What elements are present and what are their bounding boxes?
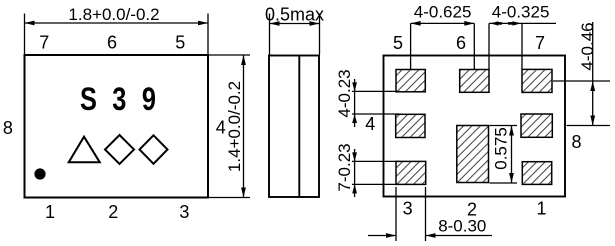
dimension 8-0.30 arrow left [386, 233, 396, 238]
svg-text:9: 9 [142, 82, 156, 118]
pad 7 [522, 69, 552, 92]
svg-text:4: 4 [365, 114, 375, 134]
dimension 4-0.23 line [354, 79, 356, 127]
dimension 4-0.625 extension lines [411, 23, 475, 69]
dimension 1.8 extension lines [25, 14, 209, 55]
dimension 4-0.23 arrow upper [352, 82, 357, 91]
svg-text:4-0.625: 4-0.625 [414, 3, 472, 22]
dimension 0.575 arrow top [509, 126, 514, 136]
bottom view outline [384, 56, 566, 197]
dimension 7-0.23 line [354, 149, 356, 197]
dimension 8-0.30 line left [368, 235, 396, 237]
svg-text:6: 6 [107, 33, 117, 53]
dimension 8-0.30 extension lines [396, 187, 426, 241]
svg-text:S: S [80, 82, 97, 118]
svg-text:1.8+0.0/-0.2: 1.8+0.0/-0.2 [68, 5, 159, 24]
dimension 4-0.325 arrow left [490, 21, 499, 25]
dimension 4-0.625 arrow right [464, 21, 474, 26]
dimension 1.4 line [243, 55, 245, 198]
marking diamond 2 [140, 135, 168, 164]
svg-text:7: 7 [39, 33, 49, 53]
dimension 0.5max line [270, 23, 320, 25]
pad 2 (center) [457, 126, 489, 183]
svg-text:1: 1 [536, 199, 546, 219]
svg-text:5: 5 [393, 33, 403, 53]
dimension 4-0.23 arrow lower [352, 114, 357, 123]
svg-text:4-0.325: 4-0.325 [492, 3, 550, 22]
svg-text:5: 5 [175, 33, 185, 53]
dimension 1.4 arrow top [241, 55, 246, 65]
dimension 0.5max extension lines [270, 14, 320, 55]
side view lid divider [298, 56, 300, 197]
dimension 4-0.46 arrow bottom [590, 116, 595, 126]
marking text S 3 9 [80, 82, 156, 118]
dimension 1.8 arrow right [198, 21, 208, 26]
dimension 4-0.46 arrow top [590, 81, 595, 91]
dimension 4-0.23 extension lines [352, 91, 400, 114]
dimension 1.4 extension lines [209, 55, 250, 198]
svg-text:3: 3 [112, 82, 126, 118]
dimension 4-0.325 arrow right [513, 21, 522, 25]
dimension 7-0.23 extension lines [352, 161, 400, 184]
svg-text:7: 7 [535, 33, 545, 53]
pad 5 [396, 70, 425, 92]
dimension 0.575 extension lines [490, 126, 518, 184]
marking diamond 1 [105, 135, 134, 164]
pad 8 [521, 114, 552, 137]
pad 1 [522, 162, 551, 185]
svg-text:0.5max: 0.5max [265, 5, 324, 25]
dimension 1.4 arrow bottom [241, 188, 246, 198]
svg-text:8: 8 [571, 132, 581, 152]
dimension 0.575 line [511, 126, 513, 184]
pad 6 [460, 70, 489, 93]
svg-text:0.575: 0.575 [492, 127, 511, 170]
svg-text:4-0.46: 4-0.46 [578, 22, 597, 70]
pad 4 [396, 114, 425, 137]
dimension 8-0.30 line right [426, 235, 493, 237]
dimension 7-0.23 arrow upper [352, 152, 357, 161]
dimension 8-0.30 arrow right [426, 233, 436, 238]
marking triangle [69, 137, 100, 163]
dimension 4-0.625 arrow left [411, 21, 421, 26]
svg-text:3: 3 [403, 199, 413, 219]
dimension 0.5max arrow left [270, 21, 280, 26]
dimension 1.8 line [25, 22, 209, 24]
dimension 7-0.23 arrow lower [352, 184, 357, 193]
svg-text:8-0.30: 8-0.30 [438, 217, 486, 236]
side view body [269, 56, 319, 198]
dimension 4-0.46 extension lines [553, 81, 610, 126]
svg-text:1: 1 [45, 202, 55, 222]
pin 1 index dot [34, 168, 45, 179]
dimension 1.8 arrow left [25, 21, 35, 26]
dimension 4-0.325 extension lines [489, 23, 522, 69]
svg-text:3: 3 [179, 202, 189, 222]
pad 3 [396, 161, 426, 184]
top view outline [25, 55, 209, 198]
svg-text:8: 8 [3, 118, 13, 138]
svg-text:7-0.23: 7-0.23 [335, 143, 354, 191]
svg-text:4-0.23: 4-0.23 [335, 69, 354, 117]
svg-text:6: 6 [456, 33, 466, 53]
dimension 0.575 arrow bottom [509, 173, 514, 183]
dimension 0.5max arrow right [310, 21, 320, 26]
dimension 4-0.325 line [489, 22, 556, 24]
dimension 4-0.625 line [411, 22, 475, 24]
svg-text:1.4+0.0/-0.2: 1.4+0.0/-0.2 [225, 81, 244, 172]
dimension 4-0.46 line [592, 22, 594, 126]
svg-text:2: 2 [108, 202, 118, 222]
